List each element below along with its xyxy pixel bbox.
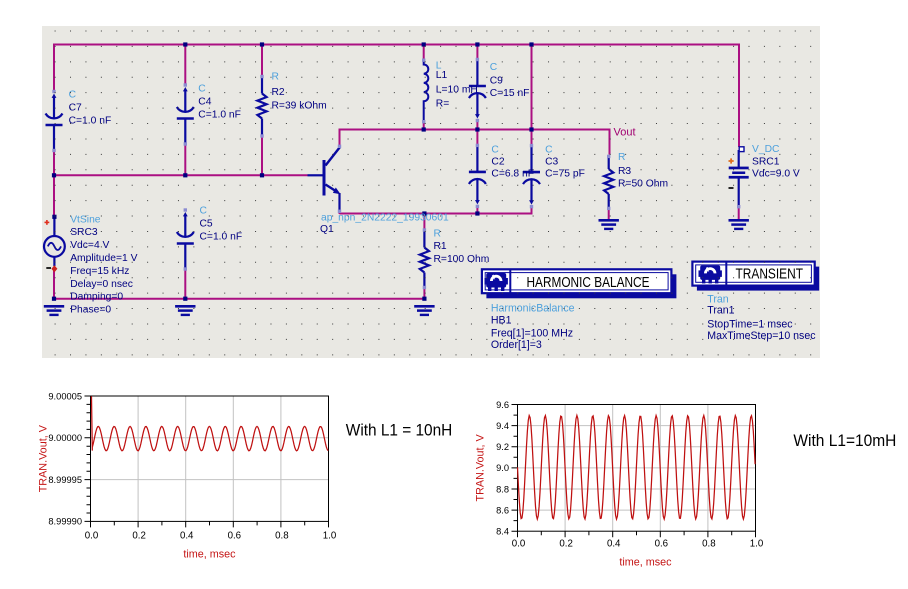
svg-text:0.2: 0.2 [559, 539, 572, 550]
svg-text:8.99990: 8.99990 [48, 517, 82, 527]
wire: L1 branch (x=423.7) [423, 44, 425, 61]
svg-text:MaxTimeStep=10 nsec: MaxTimeStep=10 nsec [707, 330, 816, 342]
wire: R1 bottom stub [423, 288, 425, 300]
svg-text:Freq=15 kHz: Freq=15 kHz [70, 266, 129, 277]
wire: R2 branch (x=262) [261, 44, 263, 77]
svg-text:C=15 nF: C=15 nF [490, 88, 530, 99]
left chart (With L1 = 10nH) [137, 396, 139, 521]
ground (below SRC3) [44, 305, 64, 308]
svg-text:0.2: 0.2 [132, 531, 145, 542]
svg-text:9.00005: 9.00005 [48, 391, 82, 401]
wire: base net [54, 174, 308, 176]
svg-text:0.0: 0.0 [85, 531, 99, 542]
svg-text:Damping=0: Damping=0 [70, 292, 123, 303]
svg-text:C3: C3 [545, 156, 558, 167]
svg-text:C: C [200, 205, 208, 216]
svg-text:0.4: 0.4 [607, 539, 621, 550]
svg-text:HARMONIC BALANCE: HARMONIC BALANCE [527, 275, 650, 291]
wire: left rail segments (x=54) [53, 44, 55, 92]
wire: C9/C2 branch (x=477.4) [476, 44, 478, 60]
svg-text:8.4: 8.4 [496, 527, 509, 537]
SRC3 plus mark [45, 221, 50, 223]
wire: collector / Vout net [340, 129, 610, 131]
svg-text:Freq[1]=100 MHz: Freq[1]=100 MHz [491, 328, 573, 340]
svg-text:ap_npn_2N2222_19930601: ap_npn_2N2222_19930601 [321, 212, 449, 223]
svg-text:C9: C9 [490, 76, 503, 87]
ground (below R3) [599, 219, 619, 222]
resistor R3 [608, 156, 610, 169]
svg-text:8.8: 8.8 [496, 484, 509, 494]
svg-text:C5: C5 [200, 218, 213, 229]
transistor Q1 [323, 160, 326, 196]
wire: top supply rail [54, 44, 739, 46]
svg-text:R: R [272, 72, 279, 83]
svg-text:C4: C4 [198, 96, 211, 107]
junction nodes [183, 42, 187, 46]
capacitor C2 [476, 145, 478, 172]
grid dots layer [55, 31, 812, 356]
wire: C5 bottom stub [184, 267, 186, 300]
svg-text:Tran1: Tran1 [707, 305, 734, 317]
svg-text:0.6: 0.6 [655, 539, 668, 550]
SRC1 plus mark [729, 160, 734, 162]
svg-text:R3: R3 [618, 166, 631, 177]
svg-text:Order[1]=3: Order[1]=3 [491, 339, 542, 351]
HARMONIC BALANCE controller box [486, 274, 676, 298]
svg-text:R2: R2 [272, 87, 285, 98]
svg-text:9.00000: 9.00000 [48, 433, 82, 443]
svg-text:Delay=0 nsec: Delay=0 nsec [70, 279, 133, 290]
svg-text:R=50 Ohm: R=50 Ohm [618, 179, 668, 190]
SRC1 minus mark [729, 187, 734, 189]
svg-text:TRAN.Vout, V: TRAN.Vout, V [38, 424, 50, 492]
svg-text:TRAN.Vout, V: TRAN.Vout, V [475, 434, 487, 502]
svg-text:Q1: Q1 [320, 224, 334, 235]
svg-text:Vdc=9.0 V: Vdc=9.0 V [752, 169, 800, 180]
resistor R1 [423, 230, 425, 248]
svg-text:C: C [545, 145, 553, 156]
svg-text:R=100 Ohm: R=100 Ohm [434, 254, 490, 265]
svg-text:C: C [490, 62, 498, 73]
ground (below SRC1) [729, 219, 749, 222]
svg-text:8.99995: 8.99995 [48, 475, 82, 485]
svg-text:L=10 mH: L=10 mH [436, 85, 478, 96]
svg-text:0.8: 0.8 [275, 531, 288, 542]
svg-text:SRC1: SRC1 [752, 156, 780, 167]
capacitor C4 [183, 87, 188, 91]
wire: bottom ground rail [54, 298, 424, 300]
svg-text:C=1.0 nF: C=1.0 nF [198, 110, 241, 121]
svg-text:9.6: 9.6 [496, 400, 509, 410]
svg-text:9.2: 9.2 [496, 442, 509, 452]
svg-text:0.4: 0.4 [180, 531, 194, 542]
svg-text:R=: R= [436, 99, 449, 110]
svg-text:1.0: 1.0 [750, 539, 764, 550]
svg-text:Phase=0: Phase=0 [70, 305, 111, 316]
svg-text:C=1.0 nF: C=1.0 nF [200, 232, 243, 243]
svg-text:0.8: 0.8 [702, 539, 715, 550]
svg-text:Amplitude=1 V: Amplitude=1 V [70, 253, 137, 264]
svg-text:C: C [491, 144, 499, 155]
svg-text:1.0: 1.0 [323, 531, 337, 542]
svg-text:HB1: HB1 [491, 315, 512, 327]
svg-text:9.0: 9.0 [496, 463, 509, 473]
svg-text:With L1 = 10nH: With L1 = 10nH [346, 421, 453, 440]
wire: C3 branch (x=531.5) [531, 44, 533, 146]
capacitor C3 [530, 146, 532, 173]
svg-text:9.4: 9.4 [496, 421, 509, 431]
svg-text:C: C [69, 90, 77, 101]
source SRC3 (VtSine) [44, 236, 65, 257]
svg-text:TRANSIENT: TRANSIENT [736, 266, 804, 282]
SRC3 polarity diamond [51, 265, 57, 272]
svg-text:R: R [618, 152, 625, 163]
wire: R3 ground stub [608, 209, 610, 220]
capacitor C5 [183, 212, 188, 216]
svg-text:V_DC: V_DC [752, 144, 780, 155]
inductor L1 [424, 61, 429, 122]
svg-text:C: C [198, 84, 206, 95]
schematic canvas [42, 26, 820, 358]
ground (below R1) [414, 305, 434, 308]
right chart (With L1=10mH) [564, 405, 566, 532]
capacitor C9 [476, 60, 478, 87]
svg-text:With L1=10mH: With L1=10mH [793, 431, 896, 450]
wire: R1 stub [423, 213, 425, 231]
svg-text:C=1.0 nF: C=1.0 nF [69, 116, 112, 127]
wire: V_DC ground stub [738, 207, 740, 219]
SRC3 minus mark [46, 267, 51, 269]
svg-text:time, msec: time, msec [619, 557, 672, 569]
svg-text:0.6: 0.6 [228, 531, 241, 542]
TRANSIENT controller box [697, 267, 819, 291]
svg-text:Vdc=4 V: Vdc=4 V [70, 240, 109, 251]
source SRC1 (V_DC battery) [738, 150, 740, 167]
svg-text:Vout: Vout [614, 127, 636, 139]
svg-text:StopTime=1 msec: StopTime=1 msec [707, 319, 793, 331]
svg-text:time, msec: time, msec [183, 549, 236, 561]
svg-text:R=39 kOhm: R=39 kOhm [272, 101, 327, 112]
svg-text:C2: C2 [491, 157, 504, 168]
svg-text:SRC3: SRC3 [70, 227, 98, 238]
svg-text:0.0: 0.0 [512, 539, 526, 550]
wire: emitter net [340, 213, 533, 215]
wire: V_DC branch (x=739) [738, 44, 740, 148]
ground (below C5) [175, 305, 195, 308]
svg-text:C=6.8 nF: C=6.8 nF [491, 169, 534, 180]
svg-text:8.6: 8.6 [496, 505, 509, 515]
svg-text:L1: L1 [436, 70, 448, 81]
capacitor C7 [52, 94, 57, 98]
svg-text:R: R [434, 229, 441, 240]
resistor R2 [261, 77, 263, 94]
wire: C4 branch (x=185) [184, 44, 186, 86]
